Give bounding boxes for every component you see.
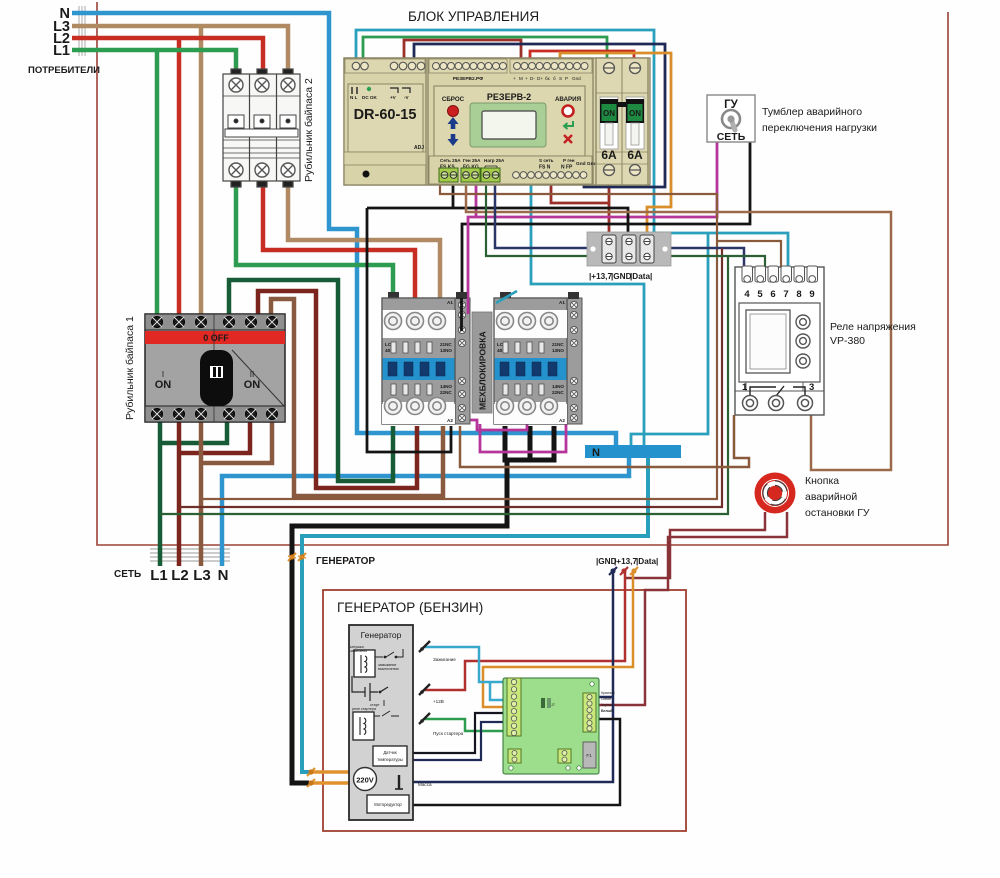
svg-text:Кнопка: Кнопка [805,475,839,487]
svg-text:7: 7 [783,289,788,300]
svg-text:|+13,7: |+13,7 [589,272,612,281]
svg-text:+: + [513,76,516,81]
svg-text:1: 1 [742,382,748,393]
svg-text:S: S [559,76,562,81]
svg-text:|Data|: |Data| [636,557,658,566]
svg-text:N FP: N FP [561,165,573,171]
svg-text:зажигания: зажигания [350,649,367,653]
svg-text:Зажигание: Зажигание [433,657,456,662]
svg-text:Реле напряжения: Реле напряжения [830,321,916,333]
svg-text:Рубильник байпаса 1: Рубильник байпаса 1 [124,316,136,420]
svg-text:Моторедуктор: Моторедуктор [374,802,402,807]
svg-text:N L: N L [350,95,358,100]
svg-text:I: I [162,370,164,379]
svg-text:6: 6 [770,289,775,300]
svg-text:A1: A1 [447,300,453,305]
svg-text:ON: ON [244,379,261,391]
svg-text:ПОТРЕБИТЕЛИ: ПОТРЕБИТЕЛИ [28,65,100,76]
svg-text:8: 8 [796,289,801,300]
svg-text:6А: 6А [601,148,617,162]
svg-text:14NO: 14NO [440,384,452,389]
svg-text:+12В: +12В [433,699,444,704]
svg-text:Ген 25А: Ген 25А [463,158,481,163]
svg-text:II: II [250,370,254,379]
svg-text:реле стартера: реле стартера [352,707,376,711]
svg-text:Масса: Масса [418,782,432,787]
svg-text:A2: A2 [447,418,453,423]
svg-text:ГЕНЕРАТОР (БЕНЗИН): ГЕНЕРАТОР (БЕНЗИН) [337,600,483,615]
svg-text:J7: J7 [551,703,555,707]
svg-text:13NO: 13NO [440,348,452,353]
svg-text:3: 3 [809,382,814,393]
svg-text:Датчик: Датчик [383,750,397,755]
svg-text:9: 9 [809,289,814,300]
svg-text:+V: +V [390,95,397,100]
svg-text:21NC: 21NC [440,342,452,347]
svg-text:Пуск стартера: Пуск стартера [433,731,464,736]
svg-text:|+13,7: |+13,7 [614,557,637,566]
svg-text:Тумблер аварийного: Тумблер аварийного [762,106,862,118]
svg-text:Синий: Синий [601,697,611,701]
svg-text:ON: ON [155,379,172,391]
svg-text:Белый: Белый [601,709,612,713]
svg-text:L3: L3 [193,567,211,584]
svg-text:220V: 220V [356,776,374,785]
svg-text:DC OK: DC OK [362,95,377,100]
svg-text:СЕТЬ: СЕТЬ [114,569,141,580]
svg-text:Сеть 25А: Сеть 25А [440,158,461,163]
svg-text:4: 4 [744,289,750,300]
svg-text:ON: ON [603,109,615,118]
svg-text:D+: D+ [537,76,543,81]
svg-text:|GND: |GND [611,272,632,281]
svg-text:температуры: температуры [377,757,403,762]
svg-text:РЕЗЕРВ-2: РЕЗЕРВ-2 [487,92,531,102]
svg-text:FS N: FS N [539,165,551,171]
svg-text:Рубильник байпаса 2: Рубильник байпаса 2 [303,78,315,182]
svg-text:СЕТЬ: СЕТЬ [717,131,746,143]
svg-text:ГЕНЕРАТОР: ГЕНЕРАТОР [316,556,375,567]
svg-text:DR-60-15: DR-60-15 [354,107,417,123]
svg-text:ON: ON [629,109,641,118]
svg-text:P: P [565,76,568,81]
svg-text:|Data|: |Data| [630,272,652,281]
svg-text:АВАРИЯ: АВАРИЯ [555,96,582,103]
svg-text:РЕЗЕРВ2.РФ: РЕЗЕРВ2.РФ [453,76,484,82]
svg-text:N: N [592,447,600,459]
svg-text:Р ген: Р ген [563,158,575,163]
svg-text:б: б [553,76,556,81]
svg-text:переключения нагрузки: переключения нагрузки [762,122,877,134]
svg-text:Черный: Черный [601,703,613,707]
svg-text:N: N [218,567,229,584]
svg-text:L2: L2 [171,567,189,584]
svg-text:VP-380: VP-380 [830,335,865,347]
svg-text:остановки ГУ: остановки ГУ [805,507,870,519]
svg-text:L1: L1 [150,567,168,584]
svg-text:S сеть: S сеть [539,158,554,163]
svg-text:22NC: 22NC [440,390,452,395]
svg-text:+: + [525,76,528,81]
svg-text:5: 5 [757,289,763,300]
svg-text:БЛОК УПРАВЛЕНИЯ: БЛОК УПРАВЛЕНИЯ [408,9,539,24]
svg-text:ADJ: ADJ [414,145,424,151]
svg-text:Gnd: Gnd [572,76,581,81]
svg-text:L1: L1 [53,43,70,59]
svg-text:МЕХБЛОКИРОВКА: МЕХБЛОКИРОВКА [478,331,488,410]
svg-text:Генератор: Генератор [361,630,402,640]
svg-text:D-: D- [530,76,535,81]
svg-text:Gnd Gnd: Gnd Gnd [576,161,597,167]
svg-text:СБРОС: СБРОС [442,96,465,103]
svg-text:выключения: выключения [378,667,399,671]
svg-text:0 OFF: 0 OFF [203,333,229,343]
svg-text:аварийной: аварийной [805,491,857,503]
svg-text:6А: 6А [627,148,643,162]
svg-text:F1: F1 [586,753,592,758]
svg-text:Красный: Красный [601,691,615,695]
svg-text:Нагр 25А: Нагр 25А [484,158,505,163]
svg-text:М: М [519,76,523,81]
